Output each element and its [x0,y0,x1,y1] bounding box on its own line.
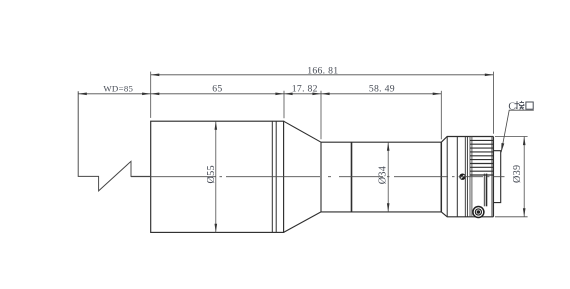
hanzi 口 drawn as rect [526,102,533,109]
knurl left edge b [471,137,473,217]
cone taper [284,121,321,232]
dimension chain line [78,93,441,95]
ext line d39 top [495,136,528,138]
knurling hatch lines [470,140,493,175]
leader line C-mount [501,110,534,152]
svg-text:166. 81: 166. 81 [307,66,338,77]
ext line barrel face [283,91,285,119]
bottom cap screw [473,207,484,218]
lock ring line 4 [466,137,468,217]
svg-text:65: 65 [212,84,222,95]
svg-text:Ø39: Ø39 [512,165,523,183]
center line (optical axis, dash-dot) [131,176,505,178]
barrel bezel line 1 [271,121,273,232]
small tube (d34) [321,142,441,212]
svg-text:58. 49: 58. 49 [369,84,395,95]
barrel bezel line 2 [275,121,277,232]
dimension 17.82 [284,93,293,96]
svg-text:17. 82: 17. 82 [292,84,318,95]
ext line cone end [320,91,322,140]
knurl left edge a [469,137,471,217]
ext line front face [150,72,152,118]
svg-text:C: C [508,101,515,112]
svg-text:Ø34: Ø34 [378,166,389,184]
tube joint line [351,142,353,212]
knurl right edge a [491,137,493,217]
dimension 65 [151,93,160,96]
tube end face [440,142,442,212]
ext line tube end [440,91,442,140]
slot line thick [486,174,488,207]
svg-text:Ø55: Ø55 [206,165,217,183]
lock ring line 2 [456,137,458,217]
ext line d39 bottom [495,216,528,218]
lock ring line 3 [464,137,466,217]
slot line thin [483,174,485,207]
dimension 166.81 [151,74,494,76]
lock ring line 1 [446,137,448,217]
svg-text:WD=85: WD=85 [103,84,133,94]
lock ring with chamfer [441,137,493,217]
flange face [492,137,494,217]
C-mount thread cylinder [493,151,500,203]
dimension 58.49 [321,93,330,96]
ext line flange face [492,72,494,134]
main barrel body (d55) [151,121,284,232]
dimension WD=85 [78,93,87,96]
cone end face [320,142,322,212]
dimension d34 vertical [387,142,389,212]
hanzi 接 drawn as strokes [515,101,524,110]
set screw on lock ring [459,174,465,180]
object-plane break line (zigzag) [78,91,151,191]
dimension d55 vertical [215,121,217,232]
